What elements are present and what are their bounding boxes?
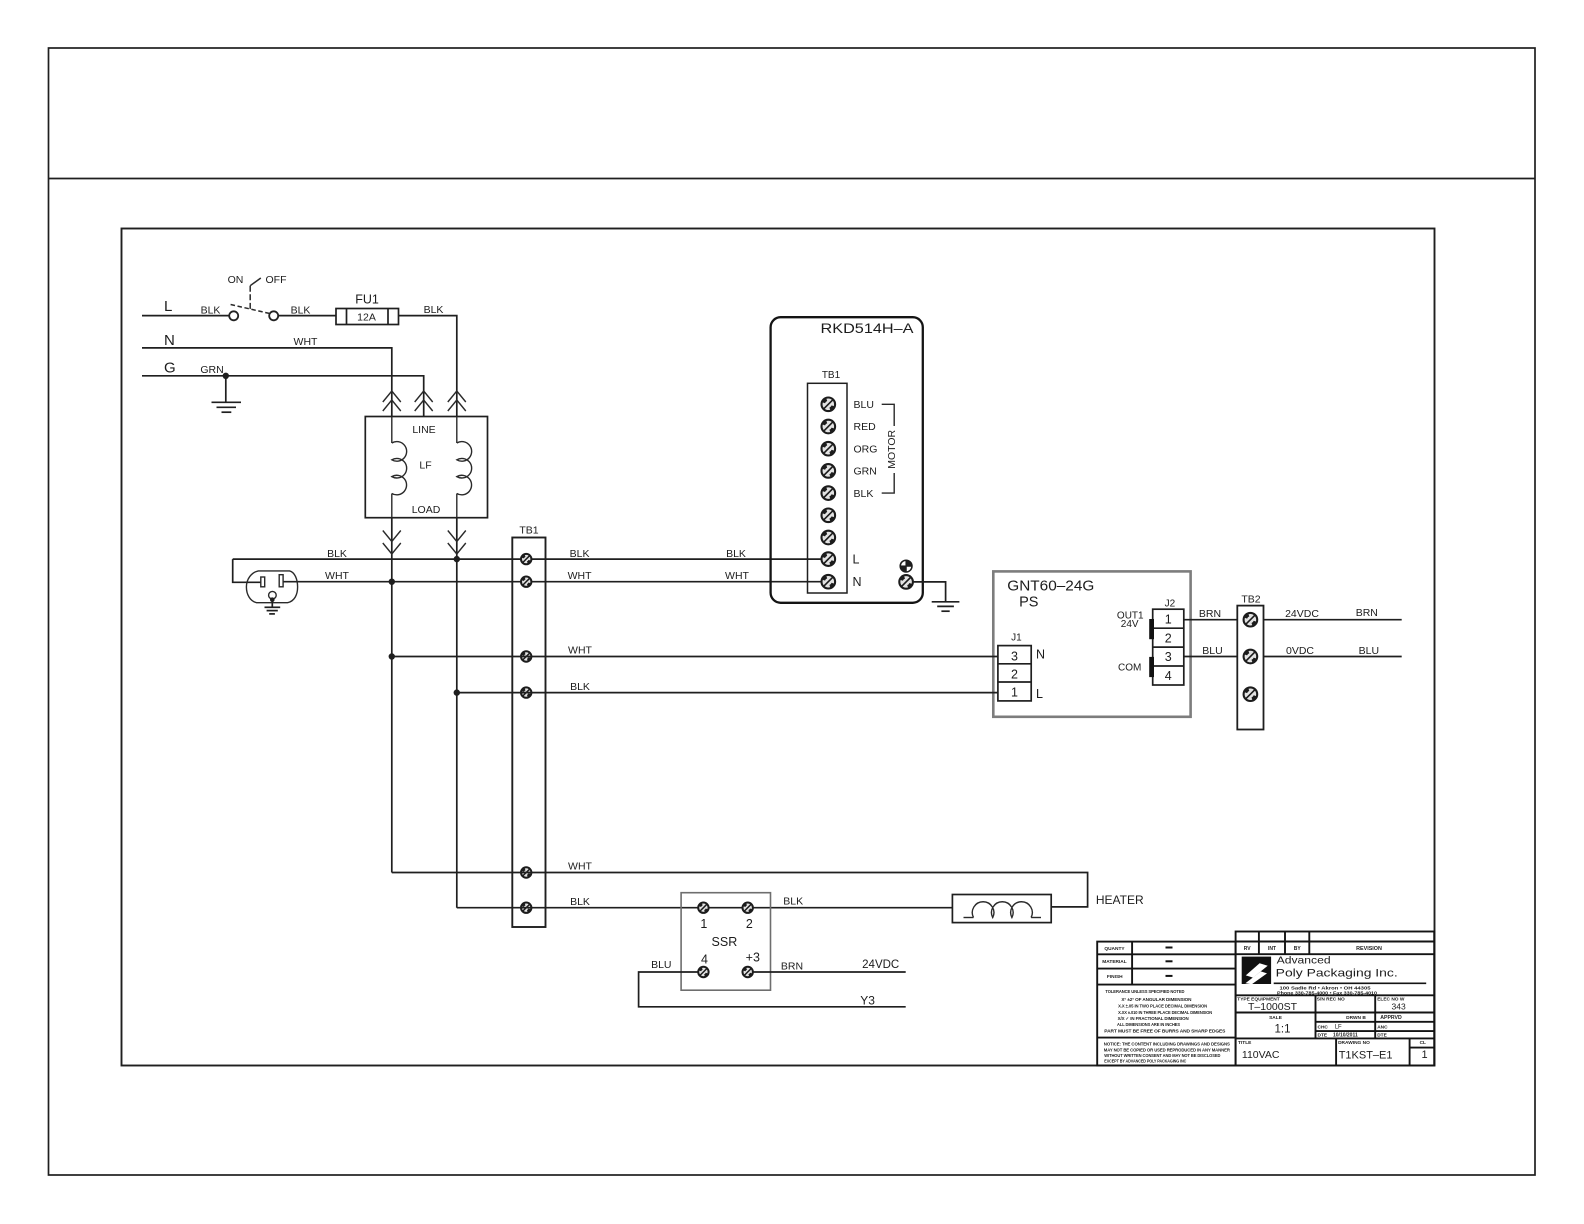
svg-text:BLU: BLU — [651, 959, 671, 971]
TB1 screw 2 — [521, 577, 531, 587]
power supply PS box GNT60-24G — [993, 571, 1190, 716]
U1 pin 7 — [822, 531, 836, 545]
terminal block TB1 — [512, 538, 545, 928]
svg-text:NOTICE: THE CONTENT INCLUDING: NOTICE: THE CONTENT INCLUDING DRAWINGS A… — [1104, 1042, 1231, 1048]
svg-text:BLU: BLU — [1359, 645, 1379, 657]
svg-text:L: L — [1036, 687, 1043, 701]
svg-text:DRAWING NO: DRAWING NO — [1338, 1040, 1370, 1046]
svg-text:WHT: WHT — [568, 861, 592, 873]
svg-text:Phone 330-785-4000 • Fax 330: Phone 330-785-4000 • Fax 330-785-4010 — [1277, 990, 1378, 995]
relay SSR box — [681, 893, 770, 991]
LF right winding — [457, 417, 472, 518]
SSR pin 3 screw — [743, 967, 753, 977]
header divider line — [49, 178, 1536, 180]
wire LF left output down — [391, 518, 393, 873]
svg-text:1: 1 — [1011, 686, 1018, 700]
svg-text:BLK: BLK — [570, 896, 590, 908]
connector chevrons up x456 — [448, 391, 466, 411]
svg-text:INT: INT — [1268, 946, 1276, 952]
svg-text:1: 1 — [700, 917, 707, 931]
TB2 screw 1 — [1244, 613, 1258, 627]
svg-text:12A: 12A — [357, 312, 376, 324]
svg-text:X.XX ±.010 IN THREE PLACE DECI: X.XX ±.010 IN THREE PLACE DECIMAL DIMENS… — [1118, 1010, 1213, 1015]
svg-text:24VDC: 24VDC — [1285, 608, 1319, 620]
svg-text:BLK: BLK — [327, 548, 347, 560]
svg-text:HEATER: HEATER — [1096, 893, 1144, 907]
title block main — [1236, 932, 1435, 1066]
svg-text:ALL DIMENSIONS ARE IN INCHES: ALL DIMENSIONS ARE IN INCHES — [1117, 1022, 1180, 1027]
svg-text:CHC: CHC — [1318, 1024, 1329, 1030]
tolerance notes — [1104, 989, 1225, 1034]
logo Advanced Poly — [1242, 957, 1271, 985]
U1 pin 9 N — [822, 575, 836, 589]
svg-text:PS: PS — [1019, 595, 1038, 611]
wire BRN SSR-3 to 24VDC — [753, 971, 906, 973]
revision header texts — [1244, 946, 1382, 952]
svg-text:MAY NOT BE COPIED OR USED REPR: MAY NOT BE COPIED OR USED REPRODUCED IN … — [1104, 1047, 1230, 1053]
connector J1 — [998, 646, 1031, 701]
svg-text:Poly Packaging Inc.: Poly Packaging Inc. — [1276, 968, 1398, 980]
svg-text:WITHOUT WRITTEN CONSENT AND MA: WITHOUT WRITTEN CONSENT AND MAY NOT BE D… — [1104, 1053, 1220, 1059]
svg-text:BLK: BLK — [854, 488, 874, 500]
svg-text:PART MUST BE FREE OF BURRS AND: PART MUST BE FREE OF BURRS AND SHARP EDG… — [1104, 1029, 1225, 1034]
wire WHT TB1 to J1-3 — [392, 656, 998, 658]
fuse FU1 — [336, 309, 399, 325]
TB1 screw 5 — [521, 867, 531, 877]
svg-text:DRWN B: DRWN B — [1346, 1015, 1366, 1021]
svg-text:3: 3 — [1011, 649, 1018, 663]
wire fuse to corner — [399, 316, 457, 417]
svg-text:+3: +3 — [746, 951, 760, 965]
svg-text:TITLE: TITLE — [1238, 1040, 1252, 1046]
title block left — [1097, 942, 1235, 1066]
svg-text:EXCEPT BY ADVANCED POLY PACKAG: EXCEPT BY ADVANCED POLY PACKAGING INC — [1104, 1059, 1186, 1065]
line filter LF box — [365, 417, 487, 518]
wire BLK TB1 to J1-1 — [457, 692, 998, 694]
TB1 screw 1 — [521, 554, 531, 564]
svg-text:WHT: WHT — [325, 570, 349, 582]
motor bracket — [882, 404, 895, 493]
svg-text:BY: BY — [1294, 946, 1302, 952]
wire N — [142, 348, 392, 417]
svg-text:REVISION: REVISION — [1356, 946, 1382, 952]
U1 pin 2 — [822, 420, 836, 434]
U1 terminal strip — [808, 383, 848, 593]
svg-text:CL: CL — [1420, 1040, 1426, 1046]
wire BLK mains run — [233, 558, 821, 560]
svg-text:4: 4 — [1165, 669, 1172, 683]
svg-text:DTE: DTE — [1377, 1032, 1387, 1038]
net 24VDC wire — [1264, 619, 1402, 621]
net 0VDC wire — [1264, 656, 1402, 658]
svg-text:J1: J1 — [1011, 633, 1022, 644]
U1 pin 8 L — [822, 552, 836, 566]
svg-text:RV: RV — [1244, 946, 1252, 952]
svg-text:0VDC: 0VDC — [1286, 645, 1314, 657]
svg-text:BLU: BLU — [854, 399, 874, 411]
svg-text:FINISH: FINISH — [1107, 974, 1123, 980]
wire BLK drop to plug — [233, 559, 261, 582]
svg-text:N: N — [1036, 647, 1045, 661]
svg-text:COM: COM — [1118, 663, 1141, 674]
svg-text:FU1: FU1 — [355, 293, 379, 307]
connector chevrons up x423 — [415, 391, 433, 411]
svg-text:N: N — [853, 575, 862, 589]
svg-text:MATERIAL: MATERIAL — [1102, 959, 1126, 965]
svg-text:LF: LF — [1335, 1025, 1342, 1031]
svg-text:110VAC: 110VAC — [1242, 1049, 1280, 1061]
svg-text:QUANTY: QUANTY — [1104, 946, 1125, 952]
svg-text:X° ±2° OF ANGULAR DIMENSION: X° ±2° OF ANGULAR DIMENSION — [1121, 997, 1192, 1002]
wire ground screw to earth — [913, 582, 946, 602]
junction WHT — [389, 653, 395, 659]
svg-text:WHT: WHT — [568, 570, 592, 582]
J2 polarity bar top — [1149, 619, 1154, 639]
svg-text:TB1: TB1 — [519, 525, 538, 537]
svg-text:BLK: BLK — [570, 548, 590, 560]
J2 polarity bar bottom — [1149, 657, 1154, 677]
svg-text:Advanced: Advanced — [1277, 955, 1331, 967]
svg-text:X/X ✓ IN FRACTIONAL DIMENSION: X/X ✓ IN FRACTIONAL DIMENSION — [1118, 1016, 1190, 1021]
TB2 screw 2 — [1244, 650, 1258, 664]
svg-text:ANC: ANC — [1377, 1024, 1388, 1030]
svg-text:J2: J2 — [1165, 599, 1176, 610]
svg-text:WHT: WHT — [568, 645, 592, 657]
TB1 screw 6 — [521, 903, 531, 913]
svg-text:L: L — [164, 298, 172, 315]
svg-text:RKD514H–A: RKD514H–A — [821, 320, 915, 336]
connector chevrons up x391 — [383, 391, 401, 411]
U1 pin 1 — [822, 398, 836, 412]
connector chevrons down x456 — [448, 531, 466, 555]
wire G — [142, 376, 424, 417]
svg-text:4: 4 — [701, 952, 708, 966]
svg-text:1:1: 1:1 — [1275, 1024, 1291, 1036]
svg-text:BRN: BRN — [781, 961, 803, 973]
svg-text:2: 2 — [1165, 631, 1172, 645]
svg-text:3: 3 — [1165, 650, 1172, 664]
heater coil — [964, 902, 1042, 918]
svg-text:OFF: OFF — [266, 274, 287, 286]
connector chevrons down x391 — [383, 531, 401, 555]
schematic border — [122, 229, 1435, 1066]
junction BLK x456 — [454, 556, 460, 562]
svg-text:SALE: SALE — [1269, 1015, 1283, 1021]
svg-text:BLK: BLK — [783, 896, 803, 908]
svg-text:BLK: BLK — [726, 548, 746, 560]
heater element box — [952, 895, 1051, 923]
svg-text:GRN: GRN — [200, 364, 223, 376]
plug ground symbol — [265, 600, 281, 614]
U1 pin 3 — [822, 442, 836, 456]
svg-text:24VDC: 24VDC — [862, 959, 899, 971]
svg-text:RED: RED — [854, 421, 877, 433]
svg-text:G: G — [164, 360, 176, 377]
address lines — [1277, 986, 1378, 996]
svg-text:WHT: WHT — [725, 570, 749, 582]
wire BLK TB1 to SSR to heater — [457, 907, 953, 909]
svg-text:BLU: BLU — [1202, 645, 1222, 657]
svg-text:343: 343 — [1392, 1002, 1406, 1012]
wire BLU SSR-4 to Y3 — [639, 972, 906, 1007]
wire L to switch — [142, 315, 230, 317]
svg-text:TB1: TB1 — [822, 370, 841, 381]
plug slot right — [279, 575, 283, 587]
svg-text:APPRVD: APPRVD — [1380, 1015, 1402, 1021]
junction on G wire — [223, 373, 229, 379]
svg-text:BLK: BLK — [291, 305, 311, 317]
ground symbol right — [932, 602, 960, 611]
switch S1 — [229, 278, 278, 320]
svg-text:TOLERANCE UNLESS SPECIFIED NOT: TOLERANCE UNLESS SPECIFIED NOTED — [1105, 989, 1185, 994]
wire switch to fuse — [278, 315, 336, 317]
TB1 screw 3 — [521, 651, 531, 661]
svg-text:WHT: WHT — [294, 336, 318, 348]
U1 ground screw — [899, 575, 913, 589]
svg-text:BLK: BLK — [424, 304, 444, 316]
U1 pin 6 — [822, 509, 836, 523]
svg-text:L: L — [853, 552, 860, 566]
svg-text:TB2: TB2 — [1241, 594, 1260, 606]
svg-text:MOTOR: MOTOR — [886, 429, 898, 468]
driver U1 RKD514H-A box — [771, 317, 923, 603]
svg-text:N: N — [164, 332, 175, 349]
svg-text:LOAD: LOAD — [412, 504, 441, 516]
U1 earth symbol — [900, 560, 912, 572]
svg-text:24V: 24V — [1121, 619, 1139, 630]
plug ground dot — [270, 597, 275, 602]
svg-text:DTE: DTE — [1318, 1032, 1328, 1038]
svg-text:T–1000ST: T–1000ST — [1248, 1001, 1298, 1013]
svg-text:10/10/2011: 10/10/2011 — [1333, 1033, 1358, 1039]
svg-text:ON: ON — [228, 274, 244, 286]
wire LF right output down — [456, 518, 458, 908]
wire WHT mains run — [283, 581, 821, 583]
svg-text:LF: LF — [419, 460, 431, 472]
wire WHT TB1 to heater — [392, 873, 1088, 907]
ground symbol — [212, 376, 242, 412]
plug P1 body — [246, 571, 297, 603]
svg-text:S/N REC NO: S/N REC NO — [1317, 997, 1345, 1003]
proprietary note — [1104, 1042, 1231, 1065]
plug ground pin — [269, 591, 277, 599]
svg-text:BLK: BLK — [570, 681, 590, 693]
TB1 screw 4 — [521, 687, 531, 697]
LF left winding — [392, 417, 407, 518]
U1 pin 4 — [822, 464, 836, 478]
wire BRN J2-1 to TB2 — [1184, 619, 1238, 621]
svg-text:BRN: BRN — [1199, 608, 1221, 620]
svg-text:T1KST–E1: T1KST–E1 — [1339, 1050, 1393, 1062]
dash row1 — [1166, 947, 1173, 949]
TB2 screw 3 — [1244, 687, 1258, 701]
SSR pin 4 screw — [698, 967, 708, 977]
wire BLU J2-3 to TB2 — [1184, 656, 1238, 658]
svg-text:2: 2 — [746, 917, 753, 931]
dash row2 — [1166, 960, 1173, 962]
SSR pin 2 screw — [743, 903, 753, 913]
svg-text:SSR: SSR — [712, 935, 738, 949]
svg-text:Y3: Y3 — [860, 993, 875, 1007]
svg-text:ORG: ORG — [854, 443, 878, 455]
svg-text:X.X ±.05 IN TWO PLACE DECIMAL: X.X ±.05 IN TWO PLACE DECIMAL DIMENSION — [1118, 1003, 1208, 1008]
U1 pin 5 — [822, 486, 836, 500]
junction BLK — [454, 689, 460, 695]
SSR pin 1 screw — [698, 903, 708, 913]
svg-text:BLK: BLK — [201, 305, 221, 317]
dash row3 — [1166, 975, 1173, 977]
svg-text:2: 2 — [1011, 667, 1018, 681]
terminal block TB2 — [1237, 606, 1263, 730]
svg-text:1: 1 — [1422, 1049, 1428, 1061]
svg-text:BRN: BRN — [1356, 607, 1378, 619]
svg-text:GRN: GRN — [854, 466, 877, 478]
svg-text:LINE: LINE — [412, 424, 435, 436]
svg-text:GNT60–24G: GNT60–24G — [1007, 579, 1094, 595]
junction WHT x391 — [389, 579, 395, 585]
svg-text:1: 1 — [1165, 612, 1172, 626]
plug slot left — [261, 577, 265, 587]
connector J2 — [1153, 609, 1184, 685]
